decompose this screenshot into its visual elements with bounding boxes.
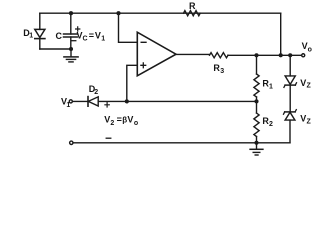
svg-text:1: 1 [66,102,70,109]
wire V1 to D2 [72,100,88,102]
junction dot non-inverting branch [125,99,129,103]
terminal bottom left [70,141,73,144]
svg-text:R: R [189,1,196,11]
svg-text:C: C [56,31,63,41]
zener diode VZ bottom [284,110,297,143]
svg-text:Z: Z [307,83,312,90]
wire op-amp output [176,53,210,55]
label Vz top [300,78,311,90]
ground (left) [64,49,78,62]
diode D2 [88,97,98,107]
label R1 [262,79,273,91]
svg-text:C: C [83,35,88,42]
junction dot zener top [288,53,292,57]
label V2 = beta Vo [104,115,138,127]
label VC = V1 [77,30,106,42]
junction dot capacitor top [69,11,73,15]
label D1 [23,28,33,40]
svg-text:V: V [300,78,306,88]
capacitor C [64,13,78,49]
wire D1 bottom to ground node [40,48,71,50]
wire output node rail [228,54,302,56]
label + (capacitor) [76,27,80,31]
junction dot inverting branch [116,11,120,15]
wire D2 to R1R2 node [98,100,256,102]
zener diode VZ top [284,55,297,112]
svg-text:V: V [95,30,101,40]
label V1 [61,97,70,110]
label R3 [213,63,224,75]
label Vz bottom [300,114,311,126]
label C [56,31,63,41]
label + (non-inverting node) [105,103,109,107]
junction node ground left [69,47,73,51]
diode D1 [35,13,45,49]
svg-text:V: V [300,114,306,124]
svg-text:1: 1 [269,84,273,91]
svg-text:=: = [89,30,94,40]
svg-text:1: 1 [29,33,33,40]
svg-text:1: 1 [101,35,105,42]
wire feedback right side [280,13,282,55]
terminal V1 [69,100,72,103]
wire top rail [40,12,281,14]
junction dot bottom rail [254,141,258,145]
label R2 [262,116,273,128]
svg-text:o: o [308,46,312,53]
resistor R3 [210,53,229,58]
wire inverting input [119,13,138,42]
wire non-inverting input [127,65,138,101]
svg-text:Z: Z [307,118,312,125]
label R [189,1,196,11]
junction dot feedback [279,53,283,57]
label Vo [302,41,312,53]
junction dot R1 top [254,53,258,57]
svg-text:o: o [134,120,138,127]
op-amp U1 [137,32,176,76]
svg-text:=: = [117,115,122,125]
wire bottom rail [73,142,290,144]
resistor R2 [254,101,259,142]
label - (capacitor) [72,40,76,42]
resistor R1 [254,55,259,101]
label D2 [89,84,99,96]
ground (bottom) [250,143,263,155]
resistor R [184,11,201,16]
svg-text:V: V [127,115,133,125]
terminal Vo [302,54,305,57]
label - (bottom rail) [106,137,111,139]
svg-text:2: 2 [269,121,273,128]
svg-text:3: 3 [220,68,224,75]
junction dot R1 R2 node [254,99,258,103]
svg-text:2: 2 [110,120,114,127]
svg-text:2: 2 [94,89,98,96]
